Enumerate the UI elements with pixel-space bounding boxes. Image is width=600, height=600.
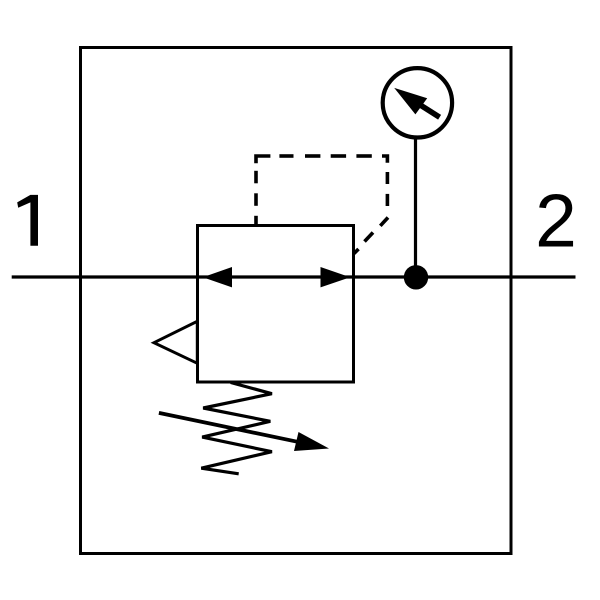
port label 1 — [17, 195, 38, 246]
relief vent triangle — [154, 321, 197, 363]
gauge needle — [394, 88, 439, 117]
wire: main flow line port 1 to port 2 — [12, 275, 576, 278]
flow path arrowhead left — [203, 267, 232, 287]
wire: gauge stem — [414, 137, 417, 270]
pilot line (dashed) — [256, 156, 388, 254]
svg-text:2: 2 — [535, 179, 577, 263]
regulator body box — [198, 226, 354, 383]
adjustment arrow shaft — [159, 413, 300, 442]
adjustment arrow head — [294, 432, 329, 451]
junction node (dot) — [404, 265, 428, 289]
flow path arrowhead right — [321, 267, 351, 287]
spring (zigzag) — [201, 383, 272, 474]
pressure gauge circle — [383, 68, 452, 137]
enclosure frame (component envelope) — [81, 48, 512, 554]
